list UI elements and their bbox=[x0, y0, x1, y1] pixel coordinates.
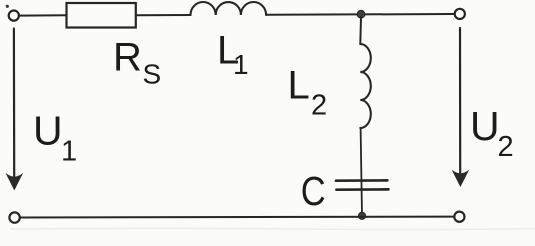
arrow U1 shaft bbox=[13, 29, 16, 177]
wire top-left to resistor bbox=[19, 14, 66, 16]
svg-text:1: 1 bbox=[233, 49, 249, 80]
svg-text:2: 2 bbox=[498, 131, 514, 163]
label C bbox=[301, 169, 326, 214]
terminal bottom-left bbox=[9, 212, 19, 222]
svg-text:C: C bbox=[301, 169, 326, 214]
label L2 bbox=[288, 63, 328, 121]
node junction top bbox=[357, 10, 365, 18]
inductor L1 bbox=[191, 2, 267, 15]
svg-text:U: U bbox=[33, 108, 63, 154]
label U2 bbox=[470, 103, 514, 163]
arrow U1 head bbox=[5, 173, 23, 191]
wire L1 to terminal top-right bbox=[266, 13, 454, 16]
terminal top-right bbox=[455, 9, 465, 19]
label L1 bbox=[217, 28, 249, 80]
label RS bbox=[113, 35, 161, 89]
svg-text:1: 1 bbox=[61, 136, 77, 168]
wire junction down to L2 bbox=[359, 18, 362, 45]
arrow U2 shaft bbox=[459, 28, 461, 173]
capacitor C bbox=[336, 179, 387, 182]
bottom rail wire bbox=[21, 216, 454, 219]
svg-text:L: L bbox=[288, 63, 310, 107]
label U1 bbox=[33, 108, 77, 168]
resistor RS bbox=[67, 3, 136, 28]
wire L2 to capacitor and through to bottom rail bbox=[361, 128, 362, 216]
terminal top-left bbox=[9, 11, 19, 21]
terminal bottom-right bbox=[454, 212, 464, 222]
node junction bottom bbox=[358, 212, 365, 219]
arrow U2 head bbox=[452, 170, 470, 188]
svg-text:2: 2 bbox=[311, 90, 327, 122]
svg-text:U: U bbox=[470, 103, 500, 149]
svg-text:R: R bbox=[113, 35, 142, 79]
inductor L2 bbox=[360, 44, 371, 128]
svg-text:S: S bbox=[143, 59, 162, 90]
wire resistor to L1 bbox=[136, 14, 191, 16]
